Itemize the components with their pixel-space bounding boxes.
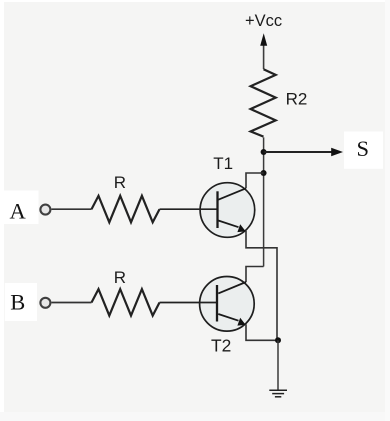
svg-text:T2: T2 [211, 336, 231, 356]
svg-text:B: B [10, 289, 25, 314]
svg-text:+Vcc: +Vcc [245, 12, 282, 30]
svg-text:A: A [10, 199, 27, 224]
svg-text:R: R [114, 173, 126, 192]
svg-text:R: R [114, 268, 126, 287]
svg-text:S: S [357, 136, 370, 161]
svg-text:R2: R2 [286, 89, 308, 108]
svg-text:T1: T1 [213, 154, 233, 173]
